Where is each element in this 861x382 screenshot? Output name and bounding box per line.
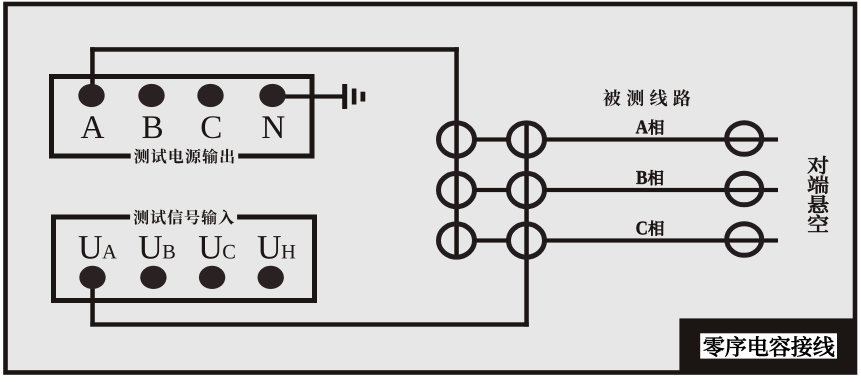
label C相 <box>636 221 663 236</box>
terminal block: test signal input box <box>54 217 315 301</box>
far-end terminal B <box>727 173 762 205</box>
label C <box>202 116 221 138</box>
label 被测线路 (line under test) <box>603 89 690 106</box>
terminal UH <box>258 266 284 289</box>
clamp circle A2 (column 2) <box>509 123 545 156</box>
terminal N <box>259 84 285 107</box>
clamp circle B2 (column 2) <box>509 173 545 206</box>
wire: jumper C1 to C2 <box>475 238 509 242</box>
wire: clamp column 2 down and across to terminal UA <box>90 121 529 327</box>
far-end terminal C <box>727 224 762 256</box>
phase line B相 <box>545 188 779 192</box>
label 测试电源输出 (test power output) <box>131 149 239 165</box>
title box 零序电容接线 (zero-sequence capacitance wiring) <box>679 318 857 373</box>
clamp circle C2 (column 2) <box>509 224 545 257</box>
wire: jumper B1 to B2 <box>475 188 509 192</box>
label UC <box>199 236 235 259</box>
terminal UB <box>140 266 166 289</box>
clamp circle B1 (column 1) <box>439 173 475 206</box>
label B相 <box>636 170 663 185</box>
ground <box>342 84 365 109</box>
terminal block: test power output box <box>52 77 313 157</box>
terminal C <box>197 84 223 107</box>
wire: terminal N to ground <box>273 94 344 98</box>
label N <box>262 116 284 138</box>
label UA <box>79 236 117 259</box>
label A相 <box>636 120 664 135</box>
phase line A相 <box>545 137 779 141</box>
clamp circle A1 (column 1) <box>439 123 475 156</box>
label UH <box>258 236 296 259</box>
label A <box>81 116 104 138</box>
terminal UC <box>199 266 225 289</box>
label 对端悬空 (far end floating) <box>808 156 829 232</box>
phase line C相 <box>545 238 779 242</box>
terminal A <box>78 84 104 107</box>
clamp circle C1 (column 1) <box>439 224 475 257</box>
wire: terminal A up, across top, down through clamp column 1 <box>90 47 459 259</box>
label UB <box>139 236 175 259</box>
terminal UA <box>79 266 105 289</box>
label 测试信号输入 (test signal input) <box>130 210 237 226</box>
wire: jumper A1 to A2 <box>475 137 509 141</box>
terminal B <box>138 84 164 107</box>
far-end terminal A <box>727 123 762 155</box>
label B <box>143 116 163 138</box>
